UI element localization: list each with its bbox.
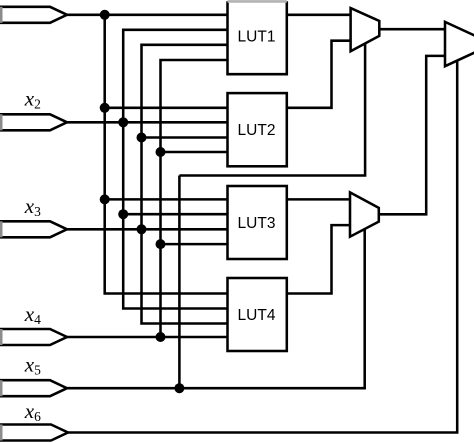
wire LUT2 output elbow to mux M1	[287, 41, 351, 108]
input pin x6	[0, 425, 68, 441]
wire x6 horizontal then up to mux M3 select	[68, 61, 457, 433]
LUT2 box U2	[228, 93, 287, 166]
wire vbus3 x3 vertical with elbows to LUT1 in3 and LUT4 in3	[142, 45, 229, 324]
mux M3 output triangle (clipped at right edge)	[445, 22, 474, 66]
wire LUT1 output to mux M1	[287, 14, 351, 17]
junction vbus4 / LUT3 in4	[156, 239, 166, 249]
input pin x4	[0, 329, 67, 345]
svg-text:LUT4: LUT4	[238, 307, 276, 324]
junction vbus1 / LUT3 in1	[100, 194, 110, 204]
input pin x2	[0, 114, 67, 130]
junction vbus1 / x1	[100, 10, 110, 20]
svg-text:LUT1: LUT1	[238, 29, 276, 46]
wire branch vbus3 to LUT2 in3	[142, 136, 229, 139]
LUT4 box U4	[228, 278, 287, 351]
svg-text:LUT3: LUT3	[238, 215, 276, 232]
mux M2 trapezoid	[350, 192, 379, 236]
junction vbus3 / LUT2 in3	[137, 133, 147, 143]
wire x4 horizontal	[65, 336, 228, 339]
junction vbus4 / LUT2 in4	[156, 147, 166, 157]
wire vbus2 x2 vertical with elbows to LUT1 in2 and LUT4 in2	[123, 30, 228, 309]
wire branch vbus2 to LUT3 in2	[123, 213, 228, 216]
junction vbus2 / x2	[118, 117, 128, 127]
wire x1 horizontal	[65, 14, 228, 17]
wire vbus4 x4 vertical with elbow to LUT1 in4	[161, 60, 229, 337]
wire vbus1 x1 vertical with elbow to LUT4 in1	[105, 15, 228, 294]
wire branch vbus4 to LUT3 in4	[161, 243, 229, 246]
wire branch vbus4 to LUT2 in4	[161, 151, 229, 154]
wire LUT3 output to mux M2	[287, 198, 350, 201]
wire branch vbus1 to LUT2 in1	[105, 107, 228, 110]
wire x3 horizontal	[65, 228, 228, 231]
junction x5 branch	[174, 383, 184, 393]
wire branch vbus1 to LUT3 in1	[105, 198, 228, 201]
junction vbus4 / x4	[156, 332, 166, 342]
mux M1 trapezoid	[351, 8, 380, 51]
wire mux M2 output elbow up to mux M3	[379, 56, 445, 214]
wire x5 horizontal then up to mux M2 select	[65, 229, 365, 388]
input pin x3	[0, 221, 67, 237]
input pin x1	[0, 7, 67, 23]
LUT3 box U3	[228, 186, 287, 259]
junction vbus2 / LUT3 in2	[118, 209, 128, 219]
input pin x5	[0, 380, 67, 396]
wire x5 branch up to select rail	[178, 176, 181, 389]
svg-text:LUT2: LUT2	[238, 122, 276, 139]
LUT1 box U1	[228, 1, 287, 74]
junction vbus3 / x3	[137, 224, 147, 234]
wire x2 horizontal	[65, 121, 228, 124]
wire mux M1 output to mux M3	[379, 28, 445, 31]
wire LUT4 output elbow to mux M2	[287, 225, 350, 293]
junction vbus1 / LUT2 in1	[100, 103, 110, 113]
wire select rail to mux M1 select	[179, 43, 365, 175]
